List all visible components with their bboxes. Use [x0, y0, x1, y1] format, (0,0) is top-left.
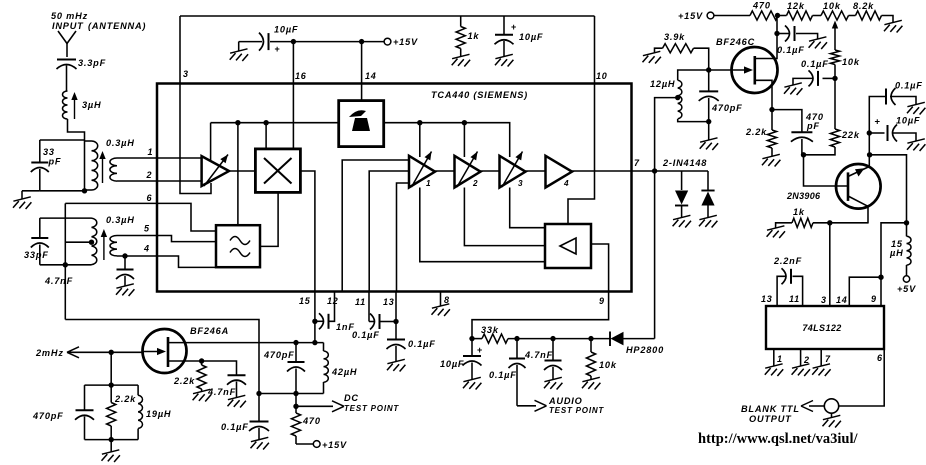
svg-text:470: 470: [752, 1, 771, 11]
terminal +5V: [897, 276, 916, 294]
wire AGC feedback IF1: [420, 188, 545, 262]
capacitor 4.7nF BF246A: [202, 361, 246, 408]
svg-text:470pF: 470pF: [263, 350, 295, 360]
wire emitter to +5V node: [870, 155, 907, 223]
junction tank bottom left: [256, 391, 261, 396]
capacitor 0.1uF audio test point: [489, 339, 547, 412]
wire antenna to coil: [66, 66, 68, 92]
svg-text:12: 12: [327, 296, 339, 306]
svg-text:+: +: [511, 22, 517, 32]
capacitor 0.1uF below drain wire: [221, 394, 269, 450]
wire tank 2MHz bottom: [85, 439, 139, 441]
svg-text:2.2k: 2.2k: [745, 127, 767, 137]
junction rail IF2: [462, 120, 467, 125]
wire pin 7 output: [572, 170, 708, 172]
svg-text:12µH: 12µH: [650, 79, 675, 89]
wire 33k to diode: [508, 338, 610, 340]
wire pin 4: [117, 256, 216, 267]
capacitor 10uF right: [867, 116, 926, 152]
svg-text:+5V: +5V: [897, 284, 916, 294]
capacitor 3.3pF: [57, 58, 107, 69]
svg-text:19µH: 19µH: [146, 409, 171, 419]
resistor 33k: [481, 325, 508, 343]
terminal blank TTL output: [823, 399, 841, 428]
svg-text:4: 4: [143, 244, 150, 254]
JFET BF246A: [143, 326, 230, 373]
junction rail mixer: [263, 120, 268, 125]
resistor 12k: [778, 1, 821, 20]
svg-text:µH: µH: [889, 248, 904, 258]
transformer T1 primary 0.3uH: [85, 141, 98, 190]
svg-text:2: 2: [472, 179, 478, 188]
junction pins14 9 node: [878, 275, 883, 280]
junction tap T2: [89, 240, 94, 245]
wire to DC test point: [295, 394, 297, 407]
ground 470pF BF246C: [700, 122, 718, 150]
junction T1 bottom: [82, 188, 87, 193]
wire audio node: [472, 338, 482, 340]
wire HP2800 to pin7: [654, 171, 656, 339]
svg-text:+15V: +15V: [678, 11, 703, 21]
IF amp 3 triangle: [500, 152, 526, 189]
wire AGC feedback IF3: [510, 188, 545, 228]
junction 12uH tap: [675, 95, 680, 100]
junction DC test point: [293, 404, 298, 409]
svg-text:AUDIO: AUDIO: [548, 396, 583, 406]
svg-text:BF246C: BF246C: [716, 37, 755, 47]
svg-text:13: 13: [383, 297, 395, 307]
wire pin3 vertical: [180, 16, 211, 194]
svg-text:HP2800: HP2800: [626, 345, 664, 355]
ground pin 8: [432, 292, 450, 317]
capacitor 470pF 2MHz tank: [32, 385, 94, 440]
svg-text:6: 6: [877, 353, 883, 363]
capacitor 0.1uF right: [886, 81, 925, 115]
svg-text:DC: DC: [344, 393, 359, 403]
junction 10k audio: [588, 336, 593, 341]
svg-text:0.1µF: 0.1µF: [221, 422, 249, 432]
junction pin14: [359, 39, 364, 44]
inductor 3uH: [63, 91, 102, 119]
ground 74LS122 pin2: [792, 349, 810, 376]
junction pin16: [291, 39, 296, 44]
svg-text:3.9k: 3.9k: [664, 32, 685, 42]
capacitor 470pF 2N3906: [772, 110, 824, 155]
svg-text:0.3µH: 0.3µH: [106, 138, 135, 148]
IC TCA440 box: [157, 84, 632, 292]
junction emitter caps: [867, 152, 872, 157]
svg-text:+: +: [875, 117, 881, 128]
junction tank 2MHz top: [109, 382, 114, 387]
wire pin15 stub: [314, 292, 316, 343]
transistor 2N3906: [786, 164, 881, 223]
svg-text:3.3pF: 3.3pF: [78, 58, 106, 68]
capacitor 1nF: [315, 292, 355, 333]
junction pin15 1nF: [312, 319, 317, 324]
resistor 1k 2N3906: [767, 207, 869, 238]
junction second tank: [63, 262, 68, 267]
resistor 3.9k: [643, 32, 709, 70]
svg-text:BF246A: BF246A: [190, 326, 229, 336]
wire RF amp to mixer: [229, 170, 255, 172]
filter block: [216, 225, 260, 267]
svg-text:9: 9: [871, 294, 877, 304]
diode 1N4148 B: [699, 171, 717, 228]
inductor 12uH: [650, 70, 709, 122]
svg-text:13: 13: [761, 294, 773, 304]
blank TTL arrow: [741, 401, 824, 425]
audio test point label: [548, 396, 604, 415]
svg-text:0.1µF: 0.1µF: [408, 339, 436, 349]
ground input tank: [13, 191, 40, 209]
wire +5V node to pins14 9: [881, 223, 907, 277]
svg-text:INPUT: INPUT: [52, 21, 84, 31]
capacitor 10uF supply 2: [495, 16, 544, 67]
wire BF246A drain to tank: [186, 342, 324, 344]
svg-text:3: 3: [821, 295, 827, 305]
junction 470-12k: [775, 13, 780, 18]
transformer T2 secondary: [110, 236, 117, 256]
wire pin14 into IC: [361, 42, 363, 101]
ground 74LS122 pin7: [812, 349, 831, 376]
wire mixer tank bottom: [259, 393, 324, 395]
capacitor 0.1uF wiper: [784, 59, 835, 95]
resistor 2.2k 2MHz tank: [107, 385, 137, 440]
svg-text:0.1µF: 0.1µF: [489, 370, 517, 380]
wire tank 2MHz top: [85, 384, 139, 386]
svg-text:2.2k: 2.2k: [173, 376, 195, 386]
svg-text:http://www.qsl.net/va3iul/: http://www.qsl.net/va3iul/: [698, 431, 858, 447]
junction base node: [801, 152, 806, 157]
junction rail filter: [235, 120, 240, 125]
junction tank 2MHz bottom: [109, 437, 114, 442]
wire base 2N3906: [804, 155, 849, 186]
wire pin11 stub: [368, 292, 370, 322]
transformer T2 primary 0.3uH: [92, 218, 97, 265]
capacitor 0.1uF pins11-13: [352, 314, 396, 341]
svg-text:33pF: 33pF: [24, 250, 49, 260]
wire filter to mixer: [260, 192, 278, 246]
wire to 74LS122 pin9: [880, 277, 882, 306]
wire rail to IF2: [463, 123, 465, 157]
input 2MHz arrow: [35, 347, 143, 358]
svg-text:+: +: [477, 345, 483, 355]
svg-text:2.2nF: 2.2nF: [773, 256, 802, 266]
junction BF246C gate: [706, 67, 711, 72]
junction 4.7nF audio: [550, 336, 555, 341]
wire pin 5: [117, 236, 216, 242]
junction 33k left: [469, 336, 474, 341]
svg-text:10: 10: [596, 71, 608, 81]
svg-text:0.3µH: 0.3µH: [106, 215, 135, 225]
terminal +15V: [384, 37, 418, 47]
wire to 74LS122 pin3: [829, 223, 831, 306]
svg-text:10µF: 10µF: [519, 32, 543, 42]
inductor 42uH: [324, 351, 358, 394]
wire pin 1: [117, 157, 202, 159]
svg-text:4: 4: [563, 179, 569, 188]
wire bottom rail to mixer tank: [65, 320, 259, 394]
svg-text:0.1µF: 0.1µF: [801, 59, 829, 69]
svg-text:11: 11: [789, 294, 800, 304]
svg-text:0.1µF: 0.1µF: [895, 81, 923, 91]
resistor 8.2k: [849, 1, 903, 33]
wire rail to filter box: [237, 123, 239, 226]
svg-text:16: 16: [295, 71, 307, 81]
terminal +15V right: [678, 11, 714, 21]
mixer block: [255, 149, 300, 193]
svg-text:OUTPUT: OUTPUT: [749, 414, 792, 424]
IF amp 1 triangle: [409, 152, 435, 189]
inductor 19uH: [138, 385, 171, 440]
wire pin 2: [117, 180, 202, 182]
IC 74LS122 box: [766, 306, 884, 349]
svg-text:1: 1: [426, 179, 431, 188]
svg-text:33k: 33k: [481, 325, 499, 335]
resistor 2.2k BF246A: [173, 361, 211, 402]
svg-text:470pF: 470pF: [711, 103, 743, 113]
wire 74LS122 pin6 output: [839, 349, 884, 406]
resistor 10k wiper: [830, 50, 859, 78]
junction BF246A source: [199, 358, 204, 363]
diode 1N4148 A: [673, 171, 691, 228]
wire rail to RF amp: [210, 123, 212, 161]
svg-text:2: 2: [803, 355, 810, 365]
ground tank 2MHz: [102, 440, 120, 462]
junction drain 0.1uF: [774, 31, 779, 36]
svg-text:(ANTENNA): (ANTENNA): [88, 21, 146, 31]
wire second tank bottom: [40, 264, 92, 266]
svg-text:3: 3: [183, 69, 189, 79]
antenna symbol: [58, 31, 76, 57]
svg-text:+15V: +15V: [322, 440, 347, 450]
svg-text:42µH: 42µH: [331, 367, 357, 377]
antenna input label: [51, 11, 146, 31]
svg-text:pF: pF: [806, 121, 820, 131]
svg-text:2: 2: [146, 170, 153, 180]
svg-text:2N3906: 2N3906: [786, 191, 821, 201]
junction audio cap: [514, 336, 519, 341]
svg-text:TCA440 (SIEMENS): TCA440 (SIEMENS): [431, 90, 528, 100]
svg-text:1: 1: [777, 354, 783, 364]
svg-text:10k: 10k: [823, 1, 841, 11]
wire pin11 internal: [369, 171, 409, 292]
svg-text:22k: 22k: [841, 130, 860, 140]
svg-text:TEST POINT: TEST POINT: [344, 404, 399, 413]
svg-text:7: 7: [634, 158, 640, 168]
capacitor 2.2nF: [773, 256, 803, 306]
svg-text:9: 9: [599, 296, 605, 306]
ground 74LS122 pin1: [765, 349, 783, 376]
svg-text:2.2k: 2.2k: [114, 394, 136, 404]
capacitor 4.7nF pin4: [44, 256, 134, 296]
svg-text:1k: 1k: [793, 207, 805, 217]
junction wiper cap: [832, 76, 837, 81]
svg-text:1: 1: [148, 147, 154, 157]
diode HP2800: [610, 332, 664, 356]
svg-text:0.1µF: 0.1µF: [352, 330, 380, 340]
wire AGC rail right: [384, 123, 510, 157]
transformer T1 secondary: [110, 158, 117, 181]
transformer T1 arrow: [102, 157, 104, 183]
wire to 74LS122 pin14: [849, 277, 881, 306]
wire IF3 to IF4: [526, 170, 546, 172]
wire tap T2: [65, 241, 91, 243]
resistor 470 top: [750, 1, 778, 21]
capacitor 33pF second tank: [24, 218, 49, 265]
wire +15V to 470: [714, 15, 750, 17]
capacitor 4.7nF audio: [524, 339, 562, 390]
svg-text:8.2k: 8.2k: [853, 1, 874, 11]
oscillator block: [339, 101, 384, 147]
svg-text:+15V: +15V: [393, 37, 418, 47]
junction rail IF1: [417, 120, 422, 125]
RF amp triangle: [202, 155, 229, 187]
IF amp 2 triangle: [455, 152, 481, 189]
junction drain tank top: [293, 340, 298, 345]
capacitor 33pF input tank: [31, 140, 85, 191]
wire AGC rail left: [211, 122, 339, 124]
svg-text:74LS122: 74LS122: [802, 323, 841, 333]
svg-text:2mHz: 2mHz: [35, 348, 64, 358]
svg-text:10k: 10k: [842, 57, 860, 67]
wire pin13 stub: [395, 292, 397, 340]
svg-text:0.1µF: 0.1µF: [777, 45, 805, 55]
capacitor 0.1uF pin13 to ground: [387, 339, 436, 372]
junction pin7 node: [652, 168, 657, 173]
wire tap to pin7 node: [655, 98, 678, 171]
svg-text:11: 11: [355, 297, 366, 307]
wire rail to IF1: [419, 123, 421, 157]
wire mixer out to pin15: [301, 171, 315, 292]
svg-text:4.7nF: 4.7nF: [44, 276, 73, 286]
junction BF246C source: [769, 107, 774, 112]
capacitor 10uF supply: [230, 25, 299, 62]
svg-text:7: 7: [825, 354, 831, 364]
capacitor 470pF BF246C: [699, 70, 743, 122]
wire AGC to pin9: [472, 244, 609, 339]
junction pin3 74LS122: [827, 220, 832, 225]
svg-text:4.7nF: 4.7nF: [524, 350, 553, 360]
svg-text:3: 3: [518, 179, 523, 188]
junction 470pF bottom: [706, 119, 711, 124]
svg-text:4.7nF: 4.7nF: [207, 387, 236, 397]
wire AGC feedback IF2: [464, 188, 545, 246]
svg-text:10µF: 10µF: [896, 116, 920, 126]
svg-text:5: 5: [144, 224, 150, 234]
svg-text:470pF: 470pF: [32, 411, 64, 421]
JFET BF246C: [709, 16, 778, 131]
IF amp 4 triangle: [546, 156, 573, 188]
wire +15V row pins16 14: [270, 41, 384, 43]
svg-text:1k: 1k: [468, 31, 480, 41]
wire IF2 to IF3: [481, 170, 500, 172]
wire pin12 internal: [342, 160, 409, 292]
junction pin4 cap: [122, 253, 127, 258]
svg-text:10µF: 10µF: [440, 359, 464, 369]
junction +5V node: [904, 220, 909, 225]
wire tank top coil lead: [323, 343, 325, 351]
wire pin6 branch down: [64, 203, 66, 319]
wire emitter node: [869, 97, 885, 167]
svg-text:470: 470: [302, 416, 321, 426]
svg-text:pF: pF: [48, 157, 62, 167]
svg-text:12k: 12k: [787, 1, 805, 11]
wire pin13 internal: [397, 183, 410, 292]
svg-text:6: 6: [147, 193, 153, 203]
resistor 470 to +15V: [291, 406, 320, 444]
resistor 2.2k BF246C: [745, 127, 780, 167]
wire to input tank: [68, 119, 85, 191]
wire top rail +15V row: [180, 15, 595, 17]
transformer T2 arrow: [103, 235, 105, 260]
svg-text:15: 15: [299, 296, 311, 306]
svg-text:BLANK TTL: BLANK TTL: [741, 404, 800, 414]
junction pin13: [393, 319, 398, 324]
inductor 15uH: [889, 223, 911, 276]
resistor 1k supply: [452, 16, 480, 67]
resistor 10k audio: [582, 339, 617, 390]
tank 2MHz wire: [110, 352, 112, 385]
svg-text:33: 33: [43, 147, 55, 157]
capacitor 470pF mixer tank: [263, 343, 305, 394]
wire pin10 vertical: [568, 16, 595, 224]
AGC detector box: [545, 224, 591, 268]
wire pin 6: [65, 203, 216, 231]
svg-text:14: 14: [836, 295, 848, 305]
wire rail to mixer: [265, 123, 267, 149]
resistor 22k: [804, 78, 860, 154]
wire IF1 to IF2: [435, 170, 455, 172]
junction 2MHz: [109, 350, 114, 355]
potentiometer 10k: [821, 1, 849, 50]
svg-text:50 mHz: 50 mHz: [51, 11, 88, 21]
DC test point arrow: [296, 393, 399, 413]
capacitor 10uF audio: [440, 339, 483, 390]
svg-text:3µH: 3µH: [82, 100, 101, 110]
wire pin16 into IC: [292, 42, 294, 149]
svg-text:TEST POINT: TEST POINT: [549, 406, 604, 415]
svg-text:+: +: [275, 44, 281, 54]
capacitor 0.1uF BF246C drain: [777, 26, 827, 56]
svg-text:10k: 10k: [599, 360, 617, 370]
wire second tank top: [40, 217, 92, 219]
junction tank bottom cap: [293, 391, 298, 396]
terminal +15V bottom: [313, 440, 347, 450]
svg-text:14: 14: [365, 71, 377, 81]
svg-text:2-IN4148: 2-IN4148: [662, 158, 707, 168]
svg-text:10µF: 10µF: [274, 25, 298, 35]
